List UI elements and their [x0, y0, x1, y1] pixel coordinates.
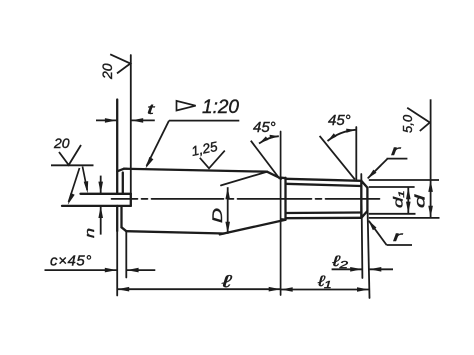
wire chamfer vertical upper: [122, 173, 124, 194]
svg-text:n: n: [82, 228, 97, 238]
svg-text:D: D: [209, 208, 225, 223]
svg-text:5,0: 5,0: [400, 114, 415, 133]
leader arrow to tenon top: [83, 167, 89, 194]
wire end face extension down: [368, 211, 370, 298]
dimension l1: [281, 287, 369, 292]
wire pin end face: [366, 188, 368, 211]
wire chamfer extension down: [125, 231, 127, 277]
wire thread root bottom: [286, 211, 362, 214]
svg-text:20: 20: [53, 135, 70, 151]
leader r top: [367, 159, 407, 179]
taper symbol triangle: [177, 101, 196, 111]
wire left end face lower: [116, 206, 118, 231]
wire thread end extension down: [361, 174, 362, 278]
wire tenon slot end vertical: [130, 194, 132, 206]
leader r bottom: [368, 220, 412, 245]
leader arrow to tenon bottom line: [68, 168, 80, 205]
wire thread crest top: [286, 179, 362, 181]
svg-text:ℓ₂: ℓ₂: [331, 253, 348, 270]
taper leader line: [146, 121, 240, 169]
svg-text:c×45°: c×45°: [50, 253, 92, 270]
svg-text:d: d: [412, 193, 428, 208]
roughness mark 20 rotated on end-face extension: [110, 54, 130, 73]
45 degree callout right: [320, 129, 356, 180]
wire left end face upper: [116, 100, 118, 194]
svg-text:d₁: d₁: [391, 191, 406, 208]
wire chamfer diagonal bottom: [122, 227, 127, 231]
dimension D: [225, 187, 230, 234]
wire thread end vertical: [360, 181, 362, 218]
centerline axis: [112, 198, 386, 200]
wire thread crest bottom: [286, 217, 362, 220]
wire thread end extension up: [355, 127, 357, 181]
45 degree callout left: [251, 135, 280, 179]
dimension d: [369, 99, 440, 218]
wire neck top: [281, 176, 285, 179]
svg-text:1:20: 1:20: [202, 97, 239, 118]
wire chamfer vertical lower: [120, 207, 122, 227]
dimension l2: [332, 267, 393, 272]
wire thread start vertical: [284, 178, 286, 220]
wire neck bottom: [281, 218, 285, 221]
dimension t: [96, 118, 155, 123]
dimension d1: [369, 187, 416, 214]
wire D extension slant bottom / cone bottom: [220, 220, 285, 235]
wire end-face extension down: [116, 231, 118, 296]
wire end chamfer bottom: [361, 211, 367, 218]
wire cone top chamfer: [267, 172, 281, 179]
roughness mark 5,0 on d extension: [407, 108, 430, 131]
wire slot-end extension line up: [130, 55, 132, 194]
roughness mark 20 left with bar: [51, 145, 94, 165]
wire chamfer diagonal top: [117, 169, 124, 172]
wire thread root top: [286, 184, 362, 186]
roughness mark 1,25 on top edge: [200, 151, 225, 169]
svg-text:ℓ: ℓ: [220, 272, 231, 291]
svg-text:ℓ₁: ℓ₁: [317, 273, 332, 290]
wire body bottom edge: [126, 231, 224, 233]
dimension l: [117, 287, 281, 292]
svg-text:45°: 45°: [253, 119, 276, 136]
wire D extension slant top: [221, 172, 267, 186]
wire tenon bottom edge: [62, 205, 131, 207]
dimension n: [98, 176, 103, 235]
svg-text:45°: 45°: [328, 112, 351, 129]
svg-text:20: 20: [99, 63, 115, 80]
dimension c x 45: [45, 268, 156, 273]
wire end chamfer top: [361, 181, 367, 188]
wire body top edge: [124, 169, 267, 172]
wire tenon top edge: [81, 193, 131, 195]
wire thread start extension vertical: [280, 132, 282, 296]
